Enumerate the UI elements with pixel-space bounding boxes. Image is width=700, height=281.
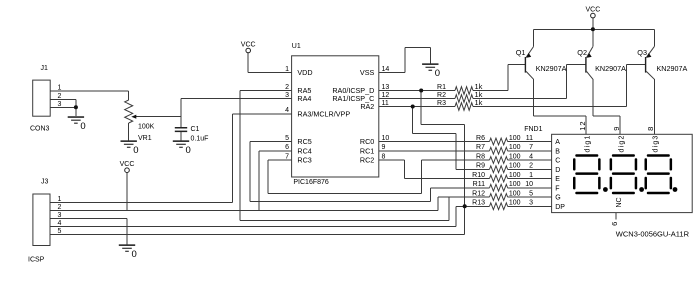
wire Q1 collector over bbox=[534, 115, 587, 117]
svg-text:VSS: VSS bbox=[360, 68, 375, 77]
svg-text:R10: R10 bbox=[472, 172, 485, 179]
svg-text:R3: R3 bbox=[437, 100, 446, 107]
svg-text:KN2907A: KN2907A bbox=[657, 64, 688, 73]
wire RC5 bbox=[250, 141, 292, 143]
svg-text:U1: U1 bbox=[292, 43, 301, 50]
svg-text:11: 11 bbox=[382, 100, 389, 107]
wire to dig2 pin bbox=[619, 116, 621, 134]
svg-text:100K: 100K bbox=[138, 124, 155, 131]
wire RA2 to R3 bbox=[379, 106, 455, 108]
resistor R7 100 bbox=[476, 144, 521, 154]
wire riser RA5 rail bbox=[448, 197, 450, 221]
resistor R2 1k bbox=[437, 90, 483, 102]
svg-text:9: 9 bbox=[612, 127, 621, 131]
svg-text:J3: J3 bbox=[41, 179, 49, 186]
junction J1 pins 2-3 bbox=[74, 105, 78, 109]
wire R7 to display bbox=[508, 150, 552, 152]
svg-text:5: 5 bbox=[529, 190, 533, 197]
resistor R10 100 bbox=[472, 172, 521, 182]
svg-text:2: 2 bbox=[529, 163, 533, 170]
svg-text:F: F bbox=[555, 185, 559, 192]
wire J3.1 bbox=[50, 201, 233, 203]
svg-text:10: 10 bbox=[382, 135, 390, 142]
svg-text:C: C bbox=[555, 158, 560, 165]
svg-text:3: 3 bbox=[58, 212, 62, 219]
wire VSS bbox=[379, 72, 405, 74]
svg-text:12: 12 bbox=[578, 120, 587, 130]
wire R13 to display bbox=[508, 205, 552, 207]
svg-text:RC2: RC2 bbox=[360, 156, 374, 165]
wire R9 to display bbox=[508, 168, 552, 170]
svg-text:8: 8 bbox=[382, 153, 386, 160]
transistor Q3 KN2907A PNP bbox=[637, 47, 687, 80]
op IC U1 PIC16F876 bbox=[292, 56, 379, 177]
wire VCC stem bbox=[592, 18, 594, 29]
VCC symbol rail bbox=[586, 6, 601, 18]
display FND1 WCN3-0056GU-A11R bbox=[552, 134, 693, 212]
wire RC1 to R7 bbox=[379, 150, 490, 152]
svg-text:Q2: Q2 bbox=[577, 48, 587, 57]
svg-text:1: 1 bbox=[58, 196, 62, 203]
svg-text:14: 14 bbox=[382, 66, 390, 73]
wire riser J3.4 to R13 bbox=[455, 206, 457, 226]
svg-text:B: B bbox=[555, 148, 560, 155]
wire RC4 down bbox=[258, 151, 260, 211]
svg-text:DP: DP bbox=[555, 204, 565, 211]
VCC symbol U1 bbox=[241, 41, 256, 53]
svg-text:100: 100 bbox=[509, 181, 521, 188]
wire Q1 emitter drop bbox=[533, 29, 535, 46]
wire R2 out bbox=[473, 98, 566, 100]
junction RA2 on R3 bbox=[411, 105, 415, 109]
wire J3.4 rail bbox=[50, 225, 456, 227]
wire VR1 top stem bbox=[128, 91, 130, 100]
wire riser to R8 bbox=[420, 160, 422, 194]
svg-text:1: 1 bbox=[529, 172, 533, 179]
wire VR1 bottom to ground bbox=[128, 123, 130, 140]
wire node riser C1 top bbox=[180, 99, 182, 128]
resistor R6 100 bbox=[476, 135, 521, 145]
display digit 3 bbox=[645, 154, 673, 194]
svg-text:2: 2 bbox=[58, 204, 62, 211]
svg-text:11: 11 bbox=[526, 135, 533, 142]
svg-text:4: 4 bbox=[529, 153, 533, 160]
resistor R12 100 bbox=[472, 190, 521, 200]
svg-text:0: 0 bbox=[132, 249, 137, 260]
wire J1.3 bbox=[50, 106, 76, 108]
wire R11 row bbox=[431, 187, 490, 189]
svg-text:dig1: dig1 bbox=[584, 134, 591, 152]
svg-text:R2: R2 bbox=[437, 92, 446, 99]
wire R13 row bbox=[456, 205, 490, 207]
wire R3 up bbox=[626, 65, 628, 107]
svg-text:3: 3 bbox=[285, 92, 289, 99]
display digit 1 bbox=[573, 154, 601, 194]
wire VSS up bbox=[404, 47, 406, 72]
svg-text:VCC: VCC bbox=[120, 161, 135, 168]
svg-text:J1: J1 bbox=[41, 65, 49, 72]
resistor R11 100 bbox=[473, 181, 521, 191]
VCC symbol J3 bbox=[120, 161, 135, 173]
svg-text:PIC16F876: PIC16F876 bbox=[293, 179, 329, 186]
wire ICSP_D jog bbox=[421, 124, 465, 126]
wire R12 row bbox=[438, 196, 490, 198]
wire R8 row bbox=[421, 159, 489, 161]
svg-text:VR1: VR1 bbox=[138, 135, 152, 142]
wire R1 up bbox=[507, 65, 509, 91]
wire R2 up bbox=[565, 65, 567, 99]
display decimal point 1 bbox=[603, 187, 608, 192]
svg-text:7: 7 bbox=[285, 153, 289, 160]
svg-text:7: 7 bbox=[529, 144, 533, 151]
wire Q2 emitter drop bbox=[592, 29, 594, 46]
svg-text:VCC: VCC bbox=[241, 41, 256, 48]
svg-text:3: 3 bbox=[58, 101, 62, 108]
svg-text:E: E bbox=[555, 176, 560, 183]
wire ICSP_D down bbox=[420, 91, 422, 125]
wire R6 to display bbox=[508, 141, 552, 143]
svg-text:R9: R9 bbox=[476, 163, 485, 170]
junction RA0/ICSP_D on R1 bbox=[419, 89, 423, 93]
wire Q3 emitter drop bbox=[653, 29, 655, 46]
svg-text:2: 2 bbox=[58, 93, 62, 100]
resistor R13 100 bbox=[472, 200, 521, 210]
wire R1 out bbox=[473, 90, 508, 92]
wire RA2 jog bbox=[413, 133, 456, 135]
svg-text:KN2907A: KN2907A bbox=[536, 64, 567, 73]
svg-text:100: 100 bbox=[509, 153, 521, 160]
wire Q3 base bbox=[627, 64, 646, 66]
svg-text:RA2: RA2 bbox=[360, 102, 374, 111]
svg-text:100: 100 bbox=[509, 200, 521, 207]
ground at VSS bbox=[422, 63, 440, 79]
wire J1.1 to VR1 top bbox=[50, 90, 129, 92]
connector J1 bbox=[33, 80, 51, 116]
wire node to RA4 bbox=[181, 98, 292, 100]
wire RC4 bbox=[259, 150, 292, 152]
ground at J1 bbox=[68, 116, 86, 132]
svg-text:3: 3 bbox=[529, 200, 533, 207]
svg-text:VCC: VCC bbox=[586, 6, 601, 13]
wire C1 bottom to ground bbox=[180, 131, 182, 140]
resistor R1 1k bbox=[437, 82, 483, 94]
svg-text:1: 1 bbox=[285, 66, 289, 73]
resistor R9 100 bbox=[476, 163, 521, 173]
junction VCC rail bbox=[591, 27, 595, 31]
svg-text:0: 0 bbox=[435, 68, 440, 79]
wire RA2 branch down bbox=[412, 107, 414, 134]
svg-text:R1: R1 bbox=[437, 84, 446, 91]
wire R10 row bbox=[404, 178, 489, 180]
svg-text:RC1: RC1 bbox=[360, 146, 374, 155]
wire RC3 down bbox=[267, 160, 269, 194]
svg-text:100: 100 bbox=[509, 135, 521, 142]
display digit 2 bbox=[610, 154, 638, 194]
svg-text:6: 6 bbox=[610, 222, 619, 226]
display decimal point 2 bbox=[639, 187, 644, 192]
wire J3.5 rail bbox=[50, 233, 465, 235]
wire R3 out bbox=[473, 106, 627, 108]
svg-text:VDD: VDD bbox=[297, 68, 312, 77]
wire RC3 rail bbox=[268, 193, 421, 195]
svg-text:C1: C1 bbox=[191, 126, 200, 133]
svg-text:4: 4 bbox=[58, 220, 62, 227]
ground at VR1 bbox=[121, 140, 139, 156]
svg-text:0: 0 bbox=[186, 145, 191, 156]
svg-text:100: 100 bbox=[509, 163, 521, 170]
svg-text:RC5: RC5 bbox=[297, 137, 311, 146]
wire VCC rail bbox=[534, 28, 655, 30]
wire R12 to display bbox=[508, 196, 552, 198]
svg-text:4: 4 bbox=[285, 107, 289, 114]
svg-text:RA4: RA4 bbox=[297, 94, 311, 103]
wire RA1 to R2 bbox=[379, 98, 455, 100]
wire RA5 rail bbox=[240, 220, 449, 222]
wire RA5 bbox=[240, 90, 291, 92]
svg-text:R6: R6 bbox=[476, 135, 485, 142]
capacitor C1 0.1uF bbox=[175, 126, 209, 143]
svg-text:5: 5 bbox=[58, 228, 62, 235]
wire J1.2/J1.3 to ground bbox=[75, 99, 77, 116]
wire R11 to display bbox=[508, 187, 552, 189]
svg-text:RC0: RC0 bbox=[360, 137, 374, 146]
wire J3.3 to ground bbox=[126, 219, 128, 245]
wire RA3/MCLR bbox=[233, 113, 292, 115]
wire Q1 base bbox=[508, 64, 525, 66]
svg-text:dig2: dig2 bbox=[618, 134, 625, 152]
wire R8 to display bbox=[508, 159, 552, 161]
display decimal point 3 bbox=[673, 187, 678, 192]
svg-text:D: D bbox=[555, 167, 560, 174]
svg-text:KN2907A: KN2907A bbox=[595, 64, 626, 73]
svg-text:12: 12 bbox=[382, 92, 390, 99]
wire Q1 collector down bbox=[533, 79, 535, 116]
svg-text:100: 100 bbox=[509, 190, 521, 197]
svg-text:0: 0 bbox=[133, 145, 138, 156]
wire riser to R11 bbox=[430, 188, 432, 202]
wire Q2 collector down bbox=[592, 79, 594, 116]
svg-text:dig3: dig3 bbox=[653, 134, 660, 152]
wire RC5 down bbox=[249, 142, 251, 202]
svg-text:RA3/MCLR/VPP: RA3/MCLR/VPP bbox=[297, 109, 350, 118]
resistor R8 100 bbox=[476, 153, 521, 163]
svg-text:R7: R7 bbox=[476, 144, 485, 151]
svg-text:CON3: CON3 bbox=[30, 126, 50, 133]
wire RA2 to R9 bbox=[455, 134, 457, 170]
wire VSS over bbox=[405, 46, 430, 48]
wire VCC to J3.2 bbox=[126, 173, 128, 211]
wire R9 row bbox=[456, 168, 490, 170]
transistor Q2 KN2907A PNP bbox=[577, 47, 626, 80]
wire RC3 bbox=[268, 159, 292, 161]
ground at J3 bbox=[119, 244, 137, 260]
wire RC2 down bbox=[403, 160, 405, 179]
svg-text:6: 6 bbox=[285, 144, 289, 151]
wire VDD bbox=[248, 72, 291, 74]
wire to dig1 pin bbox=[585, 116, 587, 134]
svg-text:ICSP: ICSP bbox=[28, 257, 45, 264]
svg-text:R13: R13 bbox=[472, 200, 485, 207]
wire VR1 wiper to node bbox=[134, 116, 181, 118]
junction ICSP_D on R13 bbox=[463, 204, 467, 208]
wire R10 to display bbox=[508, 178, 552, 180]
svg-text:FND1: FND1 bbox=[524, 126, 542, 133]
svg-text:RC4: RC4 bbox=[297, 146, 311, 155]
wire MCLR down to J3.1 bbox=[232, 114, 234, 203]
svg-text:Q1: Q1 bbox=[516, 48, 526, 57]
potentiometer VR1 100K bbox=[125, 100, 155, 142]
svg-text:RC3: RC3 bbox=[297, 156, 311, 165]
svg-text:5: 5 bbox=[285, 135, 289, 142]
svg-text:100: 100 bbox=[509, 172, 521, 179]
wire J3.2 rail bbox=[50, 209, 438, 211]
wire ICSP_D to R13 to J3.5 bbox=[464, 125, 466, 235]
wire RC2 bbox=[379, 159, 405, 161]
resistor R3 1k bbox=[437, 98, 483, 110]
wire RC0 to R6 bbox=[379, 141, 490, 143]
svg-text:Q3: Q3 bbox=[637, 48, 647, 57]
svg-text:0: 0 bbox=[80, 121, 85, 132]
ground at C1 bbox=[173, 140, 191, 156]
connector J3 ICSP bbox=[33, 194, 50, 246]
wire J1.2 bbox=[50, 98, 76, 100]
svg-text:R12: R12 bbox=[472, 190, 485, 197]
svg-text:13: 13 bbox=[382, 84, 390, 91]
wire J3.3 bbox=[50, 218, 127, 220]
svg-text:2: 2 bbox=[285, 84, 289, 91]
svg-text:R11: R11 bbox=[473, 181, 485, 188]
svg-text:G: G bbox=[555, 195, 560, 202]
svg-text:R8: R8 bbox=[476, 153, 485, 160]
svg-text:1k: 1k bbox=[475, 98, 483, 107]
svg-text:0.1uF: 0.1uF bbox=[191, 136, 209, 143]
transistor Q1 KN2907A PNP bbox=[516, 47, 567, 80]
svg-text:1: 1 bbox=[58, 84, 62, 91]
wire display pin6 stub bbox=[615, 213, 617, 220]
svg-text:100: 100 bbox=[509, 144, 521, 151]
svg-text:A: A bbox=[555, 139, 560, 146]
svg-text:8: 8 bbox=[646, 127, 655, 131]
wire Q2 collector over bbox=[593, 115, 620, 117]
wire riser to R12 bbox=[437, 197, 439, 210]
wire Q2 base bbox=[566, 64, 586, 66]
wire RC5 rail bbox=[250, 201, 431, 203]
wire Q3 collector to dig3 pin bbox=[653, 79, 655, 134]
svg-text:10: 10 bbox=[525, 181, 533, 188]
svg-text:9: 9 bbox=[382, 144, 386, 151]
wire VCC to VDD bbox=[247, 53, 249, 73]
wire RA5 down bbox=[239, 91, 241, 221]
wire RA0 to R1 bbox=[379, 90, 455, 92]
svg-text:NC: NC bbox=[616, 197, 623, 207]
wire VSS to ground bbox=[429, 47, 431, 63]
svg-text:WCN3-0056GU-A11R: WCN3-0056GU-A11R bbox=[616, 229, 690, 238]
